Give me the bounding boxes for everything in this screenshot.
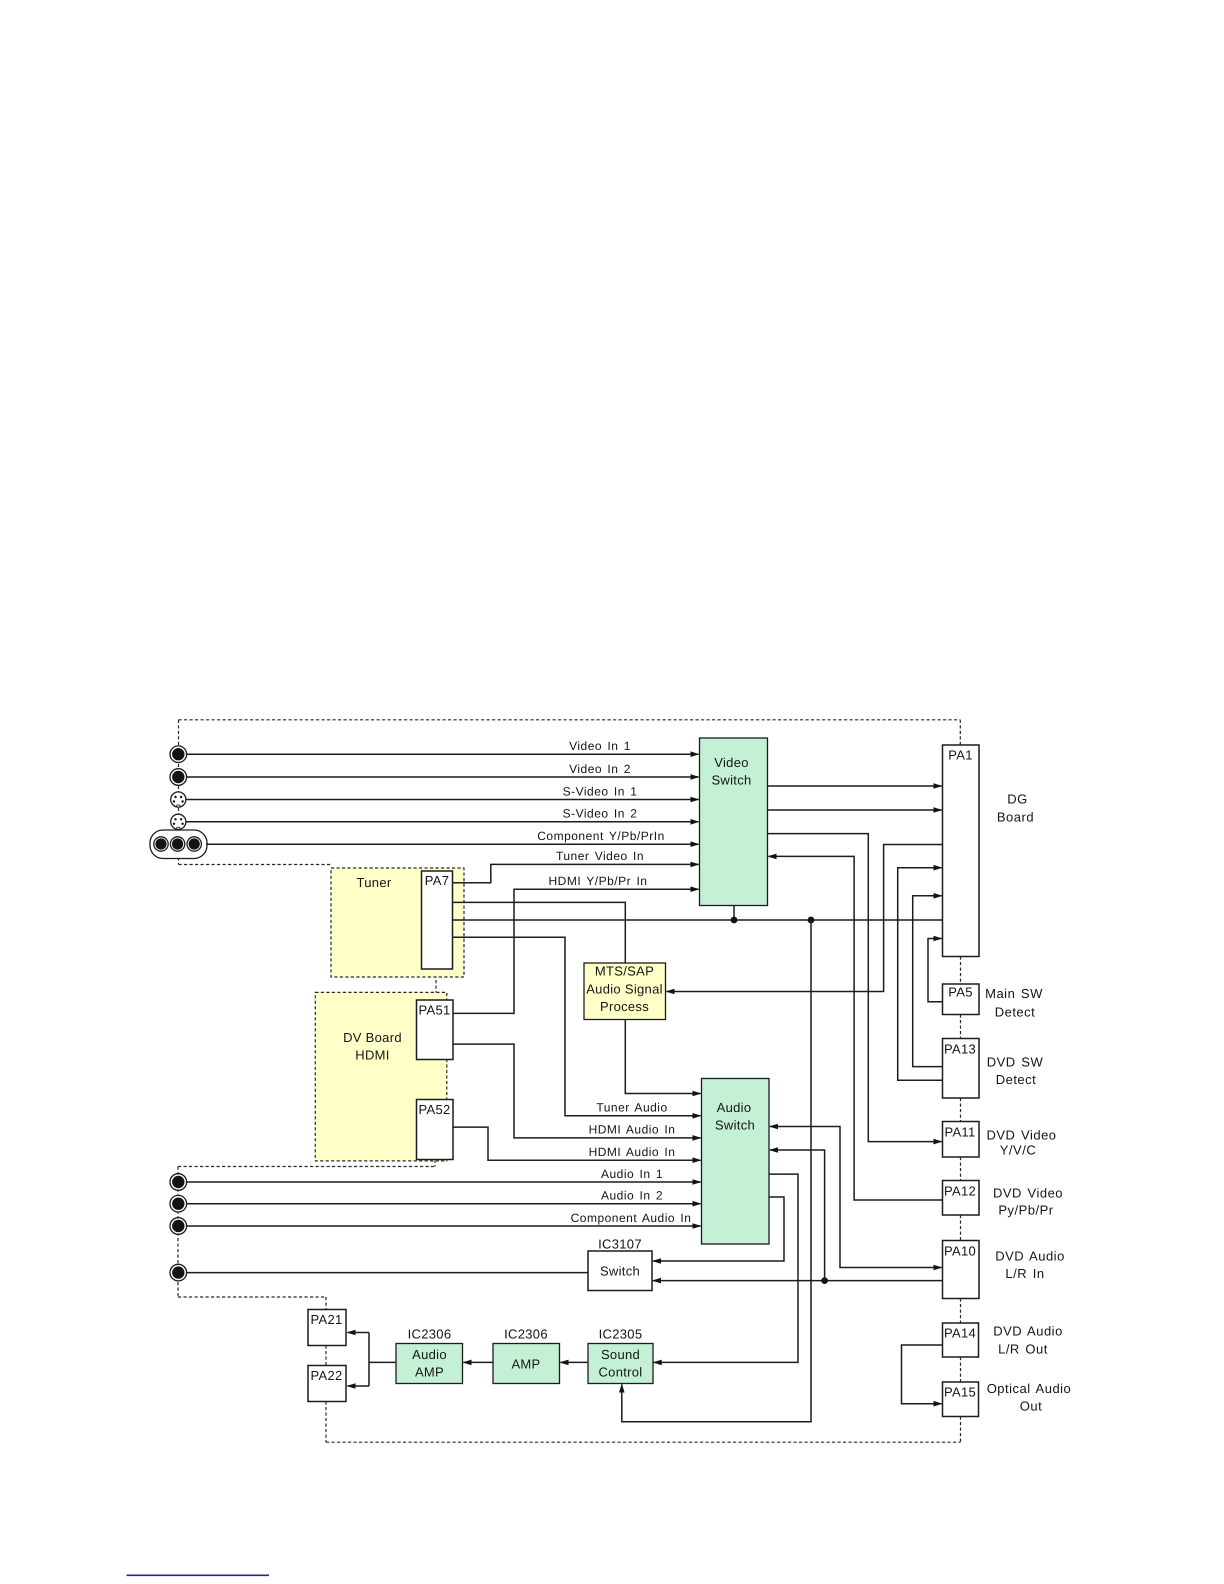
svg-text:DV Board: DV Board — [343, 1030, 402, 1045]
connector PA52 — [417, 1100, 454, 1160]
wire HDMI Audio In 1 from PA51 to Audio Switch — [453, 1044, 702, 1141]
wire PA7 to MTS/SAP top — [453, 902, 626, 962]
svg-text:Control: Control — [598, 1365, 642, 1380]
label DVD Video Py/Pb/Pr — [993, 1186, 1063, 1218]
svg-text:PA12: PA12 — [944, 1184, 976, 1199]
svg-text:DG: DG — [1007, 792, 1028, 807]
svg-text:Switch: Switch — [600, 1264, 640, 1279]
connector RCA Component Audio jack — [170, 1218, 187, 1235]
net: dashed link PA14 to PA15 — [960, 1357, 962, 1382]
net: dashed link PA11 to PA12 — [960, 1157, 962, 1181]
wire Audio Switch to PA10 (both arrows) — [769, 1124, 943, 1271]
net: dashed link PA52 to audio boundary — [434, 1160, 436, 1167]
net: dashed link PA1 to PA5 — [960, 957, 962, 985]
svg-text:Audio: Audio — [717, 1100, 752, 1115]
svg-text:Detect: Detect — [995, 1005, 1036, 1020]
connector PA7 — [422, 871, 453, 969]
svg-text:HDMI Audio In: HDMI Audio In — [589, 1145, 676, 1159]
connector PA51 — [417, 1000, 454, 1060]
connector PA14 — [943, 1323, 979, 1357]
connector PA12 — [943, 1181, 980, 1216]
svg-text:IC2305: IC2305 — [599, 1327, 643, 1342]
net: dashed drop below PA15 — [960, 1417, 962, 1443]
wire PA1 to MTS/SAP — [666, 845, 943, 995]
net: left dashed boundary through video jacks — [178, 720, 180, 865]
wire Audio In 2 to Audio Switch — [187, 1201, 702, 1207]
svg-text:Audio In 2: Audio In 2 — [601, 1189, 663, 1203]
connector RCA Audio In 2 jack — [170, 1195, 187, 1212]
svg-text:DVD Video: DVD Video — [986, 1128, 1056, 1143]
svg-text:IC3107: IC3107 — [598, 1237, 642, 1252]
connector PA13 — [943, 1039, 980, 1099]
svg-text:Sound: Sound — [601, 1347, 640, 1362]
block IC2305 Sound Control — [588, 1327, 653, 1384]
block Video Switch — [700, 738, 768, 906]
wire Audio AMP to PA21 and PA22 — [347, 1330, 397, 1389]
connector PA11 — [943, 1122, 980, 1158]
net: dashed link PA51 to PA52 — [435, 1060, 437, 1100]
label DVD SW Detect — [987, 1055, 1044, 1088]
svg-text:S-Video In 1: S-Video In 1 — [563, 784, 638, 798]
wire HDMI Audio In 2 from PA52 to Audio Switch — [453, 1127, 702, 1163]
wire junction to Audio Switch right — [769, 1147, 825, 1280]
connector RCA Video In 1 jack — [170, 746, 187, 763]
svg-text:Video In 2: Video In 2 — [569, 762, 631, 776]
label DG Board — [997, 792, 1034, 825]
svg-text:Board: Board — [997, 810, 1034, 825]
block DV Board HDMI (dashed yellow) — [315, 992, 447, 1161]
svg-text:Video: Video — [714, 755, 749, 770]
svg-text:L/R In: L/R In — [1005, 1266, 1044, 1281]
wire Video In 2 to Video Switch — [187, 774, 700, 780]
svg-text:Main SW: Main SW — [985, 986, 1043, 1001]
net: bottom dashed boundary of audio jack section — [178, 1296, 326, 1298]
svg-text:DVD SW: DVD SW — [987, 1055, 1044, 1070]
net: dashed link PA13 to PA11 — [960, 1098, 962, 1122]
svg-text:S-Video In 2: S-Video In 2 — [563, 807, 638, 821]
wire Video In 1 to Video Switch — [187, 751, 700, 757]
connector PA22 — [308, 1366, 346, 1402]
net: dashed link PA5 to PA13 — [960, 1015, 962, 1039]
connector RCA Audio In 1 jack — [170, 1174, 187, 1191]
wire Audio Switch to Sound Control — [653, 1174, 798, 1365]
svg-text:Y/V/C: Y/V/C — [1000, 1143, 1036, 1158]
wire PA7 bus to PA1 — [453, 919, 943, 921]
svg-text:IC2306: IC2306 — [504, 1327, 548, 1342]
wire Tuner Video In from PA7 to Video Switch — [453, 862, 700, 883]
junction at Video Switch bottom stub — [731, 906, 738, 924]
wire AMP to Audio AMP — [463, 1360, 494, 1366]
svg-text:Switch: Switch — [715, 1118, 755, 1133]
connector RCA Video In 2 jack — [170, 769, 187, 786]
svg-text:L/R Out: L/R Out — [998, 1342, 1048, 1357]
wire Video Switch out 1 to PA1 — [768, 783, 943, 789]
svg-text:AMP: AMP — [511, 1357, 540, 1372]
svg-text:PA51: PA51 — [418, 1003, 450, 1018]
connector PA1 — [943, 745, 980, 957]
wire PA14 to PA15 — [902, 1345, 943, 1407]
svg-text:Audio: Audio — [412, 1347, 447, 1362]
wire S-Video In 2 to Video Switch — [187, 819, 700, 825]
label Optical Audio Out — [987, 1381, 1072, 1414]
wire S-Video In 1 to Video Switch — [187, 797, 700, 803]
label DVD Audio L/R In — [995, 1249, 1065, 1282]
block IC2306 Audio AMP — [396, 1327, 463, 1384]
net: dashed drop to PA1 — [959, 720, 961, 745]
svg-text:Component Audio In: Component Audio In — [571, 1211, 692, 1225]
wire Component Audio In to Audio Switch — [187, 1223, 702, 1229]
svg-text:Process: Process — [600, 999, 649, 1014]
svg-text:PA22: PA22 — [310, 1368, 342, 1383]
svg-text:Switch: Switch — [711, 773, 751, 788]
wire PA5 to PA1 — [928, 936, 943, 1002]
svg-text:IC2306: IC2306 — [408, 1327, 452, 1342]
svg-text:Tuner: Tuner — [357, 875, 392, 890]
wire PA13 to PA1 lower — [913, 893, 943, 1067]
svg-text:PA5: PA5 — [948, 985, 973, 1000]
svg-text:PA7: PA7 — [425, 873, 450, 888]
connector Component Y/Pb/Pr jack group — [150, 830, 207, 859]
block Audio Switch — [702, 1079, 770, 1245]
svg-text:Tuner Video In: Tuner Video In — [556, 849, 644, 863]
connector PA5 — [943, 984, 980, 1015]
wire PA10 to IC3107 Switch with junction — [652, 1277, 943, 1284]
label Main SW Detect — [985, 986, 1043, 1020]
svg-text:Optical Audio: Optical Audio — [987, 1381, 1072, 1396]
connector S-Video In 1 jack — [171, 792, 186, 807]
wire Sound Control to AMP — [560, 1360, 589, 1366]
connector S-Video In 2 jack — [171, 814, 186, 829]
svg-text:Video In 1: Video In 1 — [569, 739, 631, 753]
svg-text:PA10: PA10 — [944, 1244, 976, 1259]
svg-text:AMP: AMP — [415, 1365, 444, 1380]
connector PA21 — [308, 1310, 346, 1346]
svg-text:MTS/SAP: MTS/SAP — [595, 964, 654, 979]
svg-text:PA14: PA14 — [944, 1326, 976, 1341]
wire Tuner Audio from PA7 to Audio Switch — [453, 937, 702, 1118]
net: bottom dashed boundary of video jack section — [179, 864, 332, 866]
svg-text:Out: Out — [1020, 1399, 1042, 1414]
decoration: blue underline bottom left — [127, 1574, 270, 1576]
svg-text:Tuner Audio: Tuner Audio — [596, 1101, 667, 1115]
connector RCA aux audio jack — [170, 1264, 187, 1281]
net: bottom dashed boundary — [326, 1441, 961, 1443]
wire PA13 to PA1 upper — [898, 865, 943, 1080]
net: dashed link PA10 to PA14 — [960, 1299, 962, 1324]
net: dashed drop below PA22 — [325, 1402, 327, 1443]
connector PA15 — [943, 1382, 979, 1417]
net: left dashed boundary through audio jacks — [177, 1167, 179, 1298]
svg-text:PA52: PA52 — [418, 1102, 450, 1117]
svg-text:Component Y/Pb/PrIn: Component Y/Pb/PrIn — [537, 829, 665, 843]
net: dashed link PA12 to PA10 — [960, 1215, 962, 1241]
wire Video Switch out 2 to PA1 — [768, 807, 943, 813]
block Tuner (dashed yellow) — [331, 868, 464, 977]
junction and wire to Sound Control bottom — [619, 917, 814, 1422]
svg-text:PA13: PA13 — [944, 1042, 976, 1057]
svg-text:Detect: Detect — [996, 1072, 1037, 1087]
block IC3107 Switch — [588, 1237, 652, 1291]
label DVD Audio L/R Out — [993, 1324, 1063, 1357]
net: dashed link PA21 to PA22 — [325, 1346, 327, 1366]
svg-text:DVD Audio: DVD Audio — [993, 1324, 1063, 1339]
svg-text:Audio Signal: Audio Signal — [586, 982, 663, 997]
svg-text:Py/Pb/Pr: Py/Pb/Pr — [998, 1203, 1053, 1218]
connector PA10 — [943, 1241, 980, 1299]
label DVD Video Y/V/C — [986, 1128, 1056, 1158]
wire Video Switch out to PA11 — [768, 834, 943, 1145]
svg-text:DVD Video: DVD Video — [993, 1186, 1063, 1201]
net: dashed link above PA21 — [325, 1297, 327, 1310]
svg-text:PA11: PA11 — [944, 1125, 975, 1140]
wire MTS/SAP to Audio Switch — [625, 1020, 701, 1097]
net: dashed link PA7 to PA51 — [435, 969, 437, 1000]
net: top dashed boundary of DG board video section — [179, 719, 961, 721]
svg-text:PA1: PA1 — [948, 748, 973, 763]
wire Component Y/Pb/Pr In to Video Switch — [206, 841, 700, 847]
svg-text:Audio In 1: Audio In 1 — [601, 1167, 663, 1181]
net: top dashed boundary of audio jack section — [178, 1166, 434, 1168]
wire Audio Switch to IC3107 Switch — [652, 1197, 784, 1264]
svg-text:PA21: PA21 — [310, 1312, 342, 1327]
wire HDMI Y/Pb/Pr In from PA51 to Video Switch — [453, 886, 700, 1013]
wire aux audio jack to IC3107 Switch — [187, 1272, 589, 1274]
svg-text:HDMI Audio In: HDMI Audio In — [589, 1123, 676, 1137]
wire Audio In 1 to Audio Switch — [187, 1179, 702, 1185]
block IC2306 AMP — [493, 1327, 560, 1384]
svg-text:HDMI: HDMI — [355, 1048, 389, 1063]
svg-text:PA15: PA15 — [944, 1385, 976, 1400]
wire PA12 to Video Switch — [768, 854, 943, 1200]
block MTS/SAP Audio Signal Process — [584, 963, 666, 1020]
svg-text:HDMI Y/Pb/Pr In: HDMI Y/Pb/Pr In — [549, 874, 648, 888]
svg-text:DVD Audio: DVD Audio — [995, 1249, 1065, 1264]
